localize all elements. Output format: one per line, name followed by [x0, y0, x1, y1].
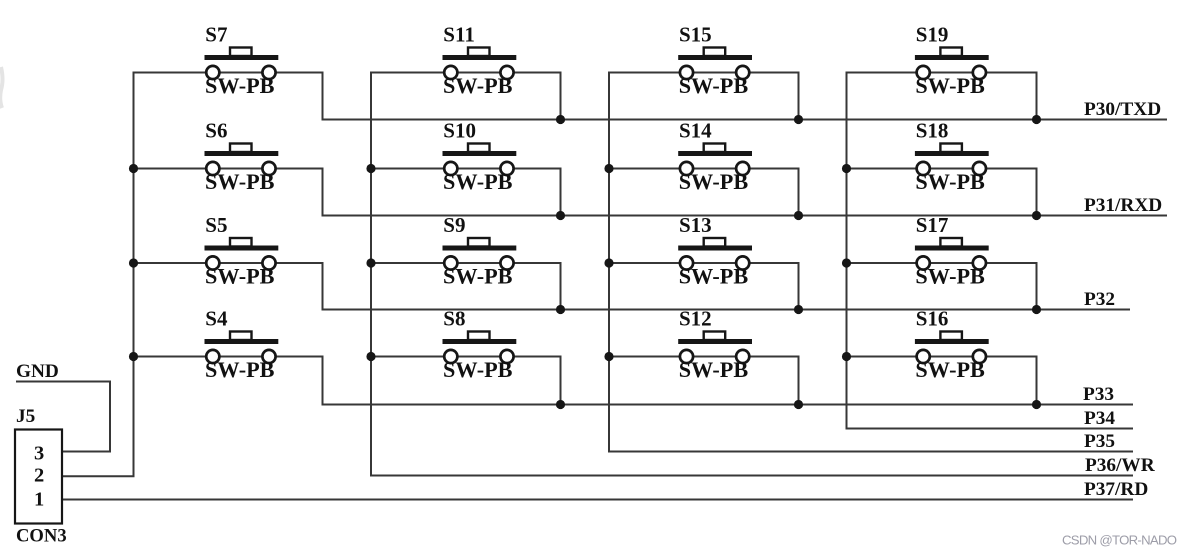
svg-text:S8: S8 — [443, 307, 465, 331]
wire P36 feed from column-2 — [370, 475, 1133, 477]
svg-text:P31/RXD: P31/RXD — [1084, 195, 1162, 216]
junction col3 bus / row2 wire — [604, 164, 613, 173]
wire row2 col3 drop — [798, 168, 800, 217]
wire row1 col4 horizontal — [847, 72, 1037, 74]
wire row3 col4 drop — [1036, 262, 1038, 311]
junction row3 line / col2 drop — [556, 305, 565, 314]
junction col2 bus / row3 wire — [366, 258, 375, 267]
svg-text:P32: P32 — [1084, 289, 1115, 310]
junction col1 bus / row4 wire — [129, 352, 138, 361]
wire J5 pin 3 stub — [62, 451, 110, 453]
svg-text:J5: J5 — [16, 406, 35, 427]
junction row4 line / col3 drop — [794, 400, 803, 409]
wire row4 col2 horizontal — [371, 356, 561, 358]
svg-text:SW-PB: SW-PB — [205, 264, 275, 289]
wire row3 col4 horizontal — [847, 262, 1037, 264]
wire column-1 bus — [133, 72, 135, 477]
svg-text:CSDN @TOR-NADO: CSDN @TOR-NADO — [1062, 533, 1177, 548]
push-button switch S17 — [915, 213, 989, 289]
svg-text:P30/TXD: P30/TXD — [1084, 99, 1161, 120]
svg-text:SW-PB: SW-PB — [679, 73, 749, 98]
junction row1 line / col4 drop — [1032, 115, 1041, 124]
wire row2 col4 drop — [1036, 168, 1038, 217]
svg-text:SW-PB: SW-PB — [679, 357, 749, 382]
push-button switch S15 — [678, 23, 752, 99]
svg-text:SW-PB: SW-PB — [679, 264, 749, 289]
wire row2 col3 horizontal — [609, 168, 799, 170]
junction col3 bus / row3 wire — [604, 258, 613, 267]
svg-text:SW-PB: SW-PB — [205, 357, 275, 382]
junction col4 bus / row3 wire — [842, 258, 851, 267]
push-button switch S10 — [443, 119, 517, 195]
wire J5 pin 1 line P37/RD — [62, 499, 1133, 501]
svg-text:GND: GND — [16, 361, 59, 382]
wire row3 col2 drop — [560, 262, 562, 311]
svg-text:P33: P33 — [1083, 384, 1114, 405]
push-button switch S18 — [915, 119, 989, 195]
wire row4 col4 horizontal — [847, 356, 1037, 358]
wire P35 feed from column-3 — [608, 451, 1133, 453]
wire J5 pin 2 stub — [62, 475, 135, 477]
wire row4 col3 horizontal — [609, 356, 799, 358]
wire row3 col3 horizontal — [609, 262, 799, 264]
wire GND line — [16, 381, 110, 383]
push-button switch S19 — [915, 23, 989, 99]
wire row1 col1 drop — [322, 72, 324, 121]
junction col4 bus / row4 wire — [842, 352, 851, 361]
svg-text:S12: S12 — [679, 307, 712, 331]
svg-text:SW-PB: SW-PB — [205, 169, 275, 194]
wire GND vertical — [109, 381, 111, 453]
wire row4 output line — [322, 404, 1134, 406]
svg-text:S4: S4 — [205, 307, 228, 331]
wire row3 col3 drop — [798, 262, 800, 311]
svg-text:S11: S11 — [443, 23, 475, 47]
wire row2 col2 drop — [560, 168, 562, 217]
svg-text:P35: P35 — [1084, 431, 1115, 452]
scan artifact left edge — [0, 67, 2, 108]
wire row3 output line — [322, 309, 1131, 311]
wire row4 col4 drop — [1036, 356, 1038, 406]
junction row1 line / col3 drop — [794, 115, 803, 124]
push-button switch S8 — [443, 307, 517, 383]
junction col2 bus / row2 wire — [366, 164, 375, 173]
wire row3 col1 horizontal — [134, 262, 323, 264]
wire row2 output line — [322, 215, 1168, 217]
svg-text:S7: S7 — [205, 23, 227, 47]
wire row3 col2 horizontal — [371, 262, 561, 264]
wire row2 col1 drop — [322, 168, 324, 217]
junction col4 bus / row2 wire — [842, 164, 851, 173]
wire row3 col1 drop — [322, 262, 324, 311]
wire row2 col1 horizontal — [134, 168, 323, 170]
svg-text:S16: S16 — [916, 307, 949, 331]
wire row1 col4 drop — [1036, 72, 1038, 121]
junction row4 line / col2 drop — [556, 400, 565, 409]
wire row1 col3 drop — [798, 72, 800, 121]
svg-text:S17: S17 — [916, 213, 949, 237]
push-button switch S5 — [205, 213, 279, 289]
svg-text:SW-PB: SW-PB — [443, 357, 513, 382]
push-button switch S11 — [443, 23, 517, 99]
wire row1 col2 drop — [560, 72, 562, 121]
svg-text:P34: P34 — [1084, 408, 1115, 429]
wire row1 output line — [322, 119, 1168, 121]
svg-text:S14: S14 — [679, 119, 712, 143]
svg-text:SW-PB: SW-PB — [443, 73, 513, 98]
svg-text:SW-PB: SW-PB — [915, 264, 985, 289]
svg-text:SW-PB: SW-PB — [205, 73, 275, 98]
wire row2 col4 horizontal — [847, 168, 1037, 170]
wire row4 col1 drop — [322, 356, 324, 406]
wire column-3 bus — [608, 72, 610, 452]
wire row4 col3 drop — [798, 356, 800, 406]
svg-text:SW-PB: SW-PB — [443, 264, 513, 289]
svg-text:S9: S9 — [443, 213, 465, 237]
junction row3 line / col3 drop — [794, 305, 803, 314]
push-button switch S4 — [205, 307, 279, 383]
push-button switch S6 — [205, 119, 279, 195]
svg-text:SW-PB: SW-PB — [915, 73, 985, 98]
junction row2 line / col3 drop — [794, 211, 803, 220]
wire row4 col1 horizontal — [134, 356, 323, 358]
wire P34 feed from column-4 — [846, 428, 1134, 430]
svg-text:S6: S6 — [205, 119, 227, 143]
svg-text:2: 2 — [34, 464, 44, 486]
svg-text:P36/WR: P36/WR — [1085, 455, 1156, 476]
junction col2 bus / row4 wire — [366, 352, 375, 361]
svg-text:P37/RD: P37/RD — [1084, 479, 1148, 500]
svg-text:S18: S18 — [916, 119, 949, 143]
push-button switch S14 — [678, 119, 752, 195]
wire row1 col3 horizontal — [609, 72, 799, 74]
wire column-2 bus — [370, 72, 372, 476]
wire row2 col2 horizontal — [371, 168, 561, 170]
connector J5 — [15, 406, 67, 547]
svg-text:CON3: CON3 — [16, 525, 67, 546]
wire column-4 bus — [846, 72, 848, 429]
svg-text:SW-PB: SW-PB — [443, 169, 513, 194]
svg-text:S13: S13 — [679, 213, 712, 237]
svg-text:SW-PB: SW-PB — [915, 357, 985, 382]
svg-text:SW-PB: SW-PB — [915, 169, 985, 194]
push-button switch S7 — [205, 23, 279, 99]
svg-text:1: 1 — [34, 489, 44, 511]
svg-text:S5: S5 — [205, 213, 227, 237]
junction row1 line / col2 drop — [556, 115, 565, 124]
svg-text:3: 3 — [34, 443, 44, 465]
wire row4 col2 drop — [560, 356, 562, 406]
svg-text:S15: S15 — [679, 23, 712, 47]
push-button switch S9 — [443, 213, 517, 289]
push-button switch S16 — [915, 307, 989, 383]
wire row1 col2 horizontal — [371, 72, 561, 74]
junction col1 bus / row3 wire — [129, 258, 138, 267]
svg-text:S19: S19 — [916, 23, 949, 47]
svg-text:SW-PB: SW-PB — [679, 169, 749, 194]
svg-text:S10: S10 — [443, 119, 476, 143]
junction col1 bus / row2 wire — [129, 164, 138, 173]
push-button switch S12 — [678, 307, 752, 383]
wire row1 col1 horizontal — [134, 72, 323, 74]
junction col3 bus / row4 wire — [604, 352, 613, 361]
junction row2 line / col4 drop — [1032, 211, 1041, 220]
junction row4 line / col4 drop — [1032, 400, 1041, 409]
junction row2 line / col2 drop — [556, 211, 565, 220]
junction row3 line / col4 drop — [1032, 305, 1041, 314]
push-button switch S13 — [678, 213, 752, 289]
